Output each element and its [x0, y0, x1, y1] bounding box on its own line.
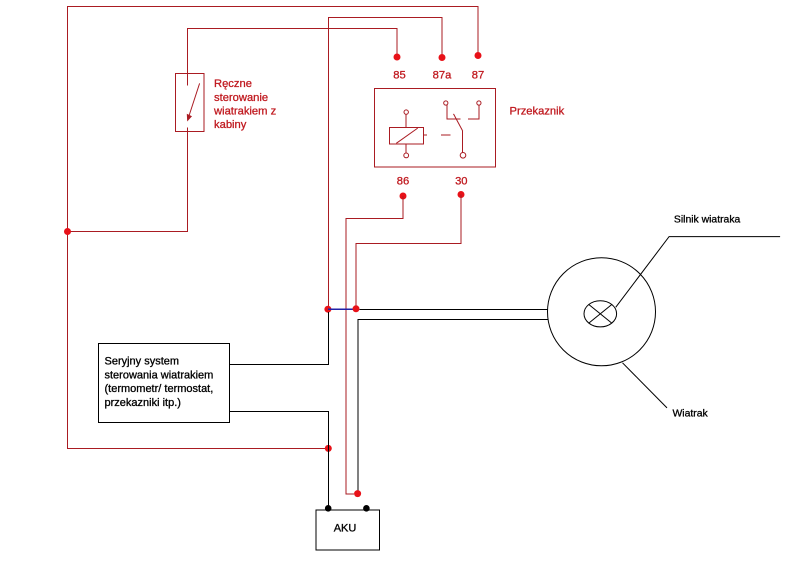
relay K1 contact 87 terminal circle [477, 101, 481, 105]
wire: seryjny system output up to node A [230, 312, 329, 365]
relay K1 contact 87a terminal circle [444, 101, 448, 105]
junction: node D (supply line / battery feed wire) [325, 445, 332, 452]
box: Seryjny system sterowania wiatrakiem (stock fan control system) [99, 344, 230, 423]
fan motor M1 symbol ellipse [584, 301, 617, 327]
relay K1 contact 87 stem and seat [468, 105, 479, 119]
battery AKU box [316, 510, 379, 550]
battery terminal + (left) [325, 505, 332, 512]
relay K1 coil bottom terminal lead [405, 144, 407, 153]
relay K1 movable contact blade [454, 114, 463, 131]
svg-text:przekazniki itp.): przekazniki itp.) [105, 397, 181, 409]
svg-text:87a: 87a [433, 69, 452, 81]
relay K1 outline box [375, 89, 496, 168]
fan motor M1 symbol X diagonal 1 [589, 305, 612, 324]
relay K1 coil diagonal [396, 128, 417, 143]
wire: manual switch bottom to main supply line [68, 132, 188, 232]
svg-text:86: 86 [397, 176, 409, 188]
switch S1 top terminal stub [187, 73, 189, 86]
callout line: Wiatrak pointer [623, 363, 668, 408]
wire: fan motor feed (node B to motor) [360, 308, 548, 310]
wire: fan motor return (motor to junction C) [358, 320, 548, 493]
relay K1 common pole terminal circle [460, 153, 466, 159]
svg-text:(termometr/ termostat,: (termometr/ termostat, [105, 383, 214, 395]
relay K1 coil top terminal lead [405, 114, 407, 127]
wire: relay pin 30 down to junction B [356, 195, 461, 307]
battery terminal - (right) [363, 505, 370, 512]
svg-text:sterowania wiatrakiem: sterowania wiatrakiem [105, 369, 214, 381]
node: relay pin 30 terminal [458, 191, 465, 198]
node: relay pin 87 terminal [475, 52, 482, 59]
fan motor M1 symbol X diagonal 2 [589, 305, 612, 324]
svg-text:30: 30 [455, 176, 467, 188]
relay K1 common pole lead [462, 131, 464, 152]
switch S1 bottom terminal stub [187, 127, 189, 131]
callout line: Silnik wiatraka pointer [616, 237, 780, 308]
svg-text:AKU: AKU [334, 523, 357, 535]
node: relay pin 86 terminal [400, 193, 407, 200]
junction: node A (87a line / seryjny system output) [324, 306, 331, 313]
wire: blue link between node A and node B [328, 308, 356, 310]
svg-text:wiatrakiem z: wiatrakiem z [213, 105, 277, 117]
svg-text:Silnik wiatraka: Silnik wiatraka [674, 214, 741, 225]
wire: branch to relay pin 85 via manual switch [188, 29, 398, 74]
switch S1 blade arrowhead [187, 114, 192, 122]
svg-text:kabiny: kabiny [214, 119, 247, 131]
svg-text:Przekaznik: Przekaznik [510, 106, 565, 118]
node: relay pin 87a terminal [439, 54, 446, 61]
svg-text:85: 85 [393, 69, 405, 81]
junction: supply line / switch wire [64, 228, 71, 235]
switch S1 blade [188, 83, 200, 119]
switch S1 box: Reczne sterowanie (manual control) [176, 74, 205, 132]
junction: node C (pin 86 wire / motor return) [354, 490, 361, 497]
fan motor M1 housing circle [548, 258, 656, 366]
svg-text:87: 87 [472, 69, 484, 81]
wire: relay pin 86 down to junction C (fan motor return) [346, 196, 403, 494]
relay K1 coil bottom terminal circle [404, 153, 409, 158]
junction: node B (pin 30 / fan motor feed) [353, 305, 360, 312]
relay K1 actuating dashed link from coil to contact blade [423, 134, 450, 136]
svg-text:Wiatrak: Wiatrak [673, 409, 709, 420]
relay K1 contact 87a stem and seat [447, 105, 461, 119]
wire: branch from top line down to relay pin 87a (long vertical to node A) [328, 18, 442, 307]
svg-text:Seryjny system: Seryjny system [105, 356, 180, 368]
wire: seryjny system supply down to battery positive [230, 412, 329, 508]
node: relay pin 85 terminal [394, 54, 401, 61]
relay K1 coil winding rectangle [390, 128, 424, 145]
svg-text:Ręczne: Ręczne [214, 78, 252, 90]
wire: main +12V supply line from battery area: left vertical, top horizontal feeding pin 87, bottom run to junction D [68, 7, 479, 449]
relay K1 coil top terminal circle [404, 110, 408, 114]
svg-text:sterowanie: sterowanie [214, 92, 268, 104]
